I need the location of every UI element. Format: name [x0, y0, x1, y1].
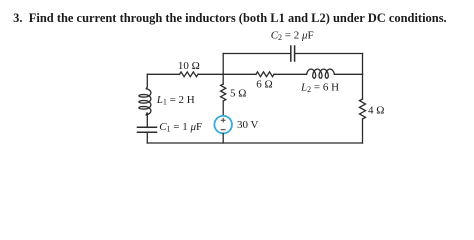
- capacitor C1: [138, 127, 157, 132]
- wire main rail: L2 to right rail: [334, 73, 362, 75]
- svg-text:L1 = 2 H: L1 = 2 H: [156, 94, 195, 107]
- plus sign of source: [221, 118, 225, 122]
- wire: 4-ohm to bottom corner: [362, 119, 364, 143]
- inductor L1: [139, 89, 151, 115]
- wire middle vertical upper (top rail to main rail): [222, 54, 224, 75]
- wire main rail: 6-ohm to L2: [274, 73, 307, 75]
- svg-text:6 Ω: 6 Ω: [256, 78, 272, 90]
- resistor R 6ohm: [256, 72, 274, 77]
- minus sign of source: [221, 129, 225, 131]
- bottom rail wire: [147, 142, 362, 144]
- svg-text:5 Ω: 5 Ω: [230, 88, 246, 100]
- voltage source V1 30V circle: [214, 116, 232, 134]
- svg-text:C2 = 2 μF: C2 = 2 μF: [271, 29, 314, 42]
- svg-text:10 Ω: 10 Ω: [178, 60, 200, 72]
- svg-text:4 Ω: 4 Ω: [368, 105, 384, 117]
- wire top-rail left segment (node to C2): [223, 53, 290, 55]
- svg-text:L2 = 6 H: L2 = 6 H: [300, 82, 339, 95]
- resistor R 5ohm: [221, 84, 226, 101]
- inductor L2: [307, 69, 335, 78]
- wire: 5-ohm to source: [222, 101, 224, 116]
- wire: L1 to C1: [146, 113, 147, 127]
- resistor R 4ohm: [360, 99, 366, 119]
- wire left vertical: corner to L1: [146, 74, 147, 88]
- resistor R 10ohm: [180, 72, 198, 77]
- capacitor C2: [291, 46, 295, 61]
- svg-text:C1 = 1 μF: C1 = 1 μF: [159, 121, 202, 134]
- svg-text:3. Find the current through t: 3. Find the current through the inductor…: [13, 11, 447, 25]
- wire top-rail right segment (C2 to right corner): [295, 53, 362, 55]
- wire main rail: 10-ohm to 6-ohm: [198, 73, 256, 75]
- main rail: left corner to 10-ohm: [147, 73, 179, 75]
- right vertical wire: top corner to 4-ohm: [362, 54, 364, 100]
- wire: source to bottom rail: [222, 133, 224, 143]
- svg-text:30 V: 30 V: [237, 119, 259, 131]
- wire: C1 to bottom rail: [146, 133, 148, 143]
- wire middle vertical: rail to 5-ohm: [222, 74, 224, 84]
